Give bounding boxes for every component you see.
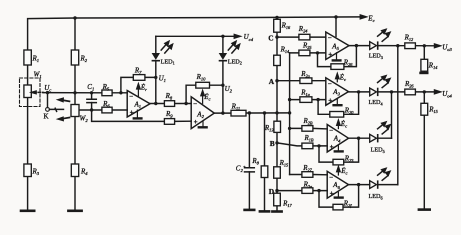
svg-text:+: + (194, 118, 198, 126)
svg-text:+: + (330, 143, 334, 151)
svg-text:+: + (330, 190, 334, 198)
svg-text:B: B (270, 139, 275, 148)
svg-text:LED1: LED1 (161, 58, 175, 65)
svg-text:−: − (329, 127, 333, 135)
svg-text:LED2: LED2 (228, 58, 242, 65)
svg-text:−: − (328, 34, 332, 42)
svg-text:−: − (129, 93, 133, 101)
svg-text:LED6: LED6 (369, 193, 383, 200)
svg-text:LED5: LED5 (371, 146, 385, 153)
svg-text:C: C (268, 33, 273, 42)
svg-text:D: D (269, 187, 274, 196)
svg-text:K: K (44, 113, 49, 121)
svg-text:+: + (130, 108, 134, 116)
svg-text:−: − (193, 100, 197, 108)
svg-text:A: A (269, 77, 275, 86)
svg-text:−: − (329, 173, 333, 181)
svg-text:LED3: LED3 (369, 53, 383, 60)
svg-text:+: + (328, 51, 332, 59)
svg-text:+: + (328, 96, 332, 104)
svg-text:−: − (328, 80, 332, 88)
